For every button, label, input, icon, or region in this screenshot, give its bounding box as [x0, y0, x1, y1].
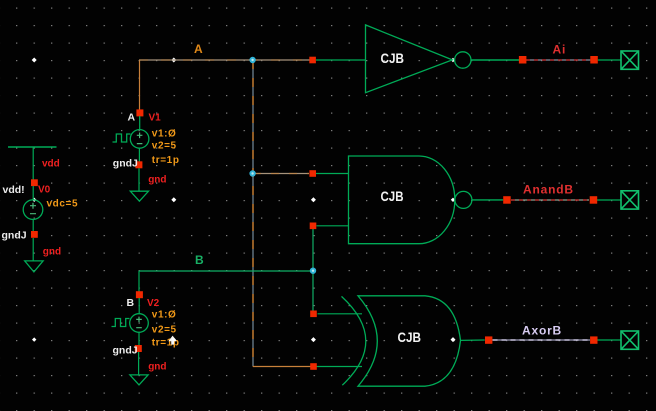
inverter U1 body: [366, 25, 453, 93]
pin square Ai left: [519, 56, 527, 64]
pin V1 gnd: [135, 161, 142, 168]
svg-text:AnandB: AnandB: [523, 183, 574, 197]
svg-text:Ai: Ai: [553, 43, 567, 57]
pulse glyph V1: [113, 134, 131, 142]
flight line AxorB: [493, 339, 591, 341]
nand U2 bubble: [455, 191, 472, 208]
source V1 circle: [130, 130, 149, 149]
source V0 stem top: [32, 186, 34, 200]
svg-text:V1: V1: [149, 113, 162, 124]
svg-text:gndJ: gndJ: [113, 158, 138, 170]
source V0 circle: [23, 200, 43, 220]
xor U3 input stubs: [318, 313, 363, 315]
wire net A vertical from V1 to corner: [139, 60, 141, 110]
junction node A top: [249, 57, 255, 63]
svg-text:v2=5: v2=5: [152, 325, 177, 336]
wire to box AnandB: [597, 199, 621, 201]
source V2 stem bottom: [138, 332, 140, 345]
svg-text:gndJ: gndJ: [113, 345, 138, 357]
wire net A bottom horizontal to XOR in2: [253, 366, 311, 368]
nand U2 body: [349, 156, 455, 244]
junction node B: [310, 268, 316, 274]
pin square AxorB left: [485, 336, 492, 343]
xor U3 body: [358, 296, 461, 386]
wire net B horizontal: [139, 270, 313, 272]
svg-text:tr=1p: tr=1p: [152, 338, 180, 349]
svg-text:v1:Ø: v1:Ø: [152, 310, 177, 321]
source V0 plus minus: [30, 203, 36, 214]
gnd stem V2: [138, 352, 140, 375]
source V2 circle: [130, 314, 149, 333]
inverter U1 input stub: [316, 59, 366, 61]
source V1 stem top: [139, 116, 141, 130]
source V1 stem bottom: [138, 148, 140, 161]
ground V1: [130, 191, 148, 201]
svg-text:tr=1p: tr=1p: [152, 155, 180, 166]
svg-text:B: B: [127, 297, 135, 309]
wire net B vertical from V2: [138, 271, 140, 292]
svg-text:V2: V2: [147, 298, 160, 309]
svg-text:AxorB: AxorB: [522, 324, 562, 338]
pin xor input2: [310, 363, 317, 370]
pin square AnandB left: [503, 196, 511, 204]
wire net B vertical NAND in2 to XOR in1: [312, 229, 314, 311]
gnd stem V1: [138, 168, 140, 191]
svg-text:v2=5: v2=5: [152, 140, 177, 151]
svg-text:CJB: CJB: [381, 50, 405, 66]
junction node A at NAND branch: [249, 170, 255, 176]
svg-text:B: B: [195, 253, 204, 267]
pin V1 top (net A): [136, 109, 143, 116]
wire net A horizontal top: [139, 59, 310, 61]
svg-text:gndJ: gndJ: [2, 230, 27, 242]
pin square AnandB right: [590, 196, 598, 204]
source V2 stem top: [138, 298, 140, 314]
svg-text:vdd: vdd: [42, 159, 60, 170]
pin square AxorB right: [590, 336, 597, 343]
pin V2 top (net B): [136, 291, 143, 298]
svg-text:gnd: gnd: [43, 247, 61, 258]
svg-text:A: A: [128, 112, 136, 124]
ground V0: [25, 261, 43, 272]
svg-text:vdc=5: vdc=5: [47, 199, 79, 210]
svg-text:vdd!: vdd!: [3, 184, 25, 196]
inverter output wire: [471, 59, 520, 61]
output box AnandB: [621, 191, 639, 209]
xor U3 leading curve: [342, 296, 366, 385]
mouse cursor: [168, 336, 177, 345]
source V2 plus minus: [136, 317, 142, 328]
wire net A vertical long: [252, 60, 254, 367]
nand U2 input stubs: [316, 173, 349, 175]
inverter U1 bubble: [455, 52, 471, 68]
svg-text:CJB: CJB: [381, 188, 404, 204]
pin V0 minus: [31, 231, 38, 238]
pin V2 gnd: [135, 345, 142, 352]
svg-text:v1:Ø: v1:Ø: [152, 128, 177, 139]
flight line AnandB: [511, 199, 589, 201]
svg-text:V0: V0: [38, 185, 51, 196]
gnd stem V0: [32, 238, 34, 261]
source V0 stem bottom: [32, 219, 34, 231]
pin inverter input: [309, 57, 316, 64]
vdd rail: [8, 146, 57, 148]
xor output wire: [461, 339, 485, 341]
svg-text:CJB: CJB: [398, 329, 422, 345]
output box AxorB: [621, 331, 639, 349]
flight line Ai: [526, 59, 591, 61]
wire to box AxorB: [598, 339, 622, 341]
wire net A branch to NAND in1: [253, 173, 309, 175]
svg-text:gnd: gnd: [148, 175, 166, 186]
pin xor input1: [310, 311, 317, 318]
nand output wire: [472, 199, 503, 201]
pulse glyph V2: [112, 319, 130, 327]
major grid dots: [32, 58, 595, 343]
vdd rail stem: [32, 147, 34, 180]
output box Ai: [621, 51, 639, 69]
pin V0 plus: [31, 179, 38, 186]
svg-text:A: A: [194, 42, 203, 56]
pin square Ai right: [590, 56, 598, 64]
pin nand input2: [310, 223, 317, 230]
ground V2: [130, 375, 148, 385]
svg-text:gnd: gnd: [148, 362, 166, 373]
wire to box Ai: [598, 59, 621, 61]
pin nand input1: [309, 170, 316, 177]
source V1 plus minus: [137, 133, 143, 144]
